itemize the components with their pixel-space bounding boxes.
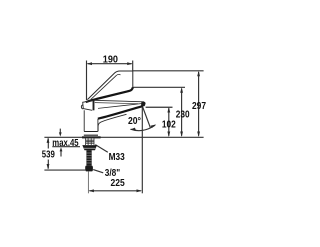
threaded shank	[86, 138, 94, 145]
wire ext right 225	[141, 137, 143, 193]
svg-text:max.45: max.45	[52, 138, 79, 149]
wire counter line	[44, 136, 203, 138]
svg-text:20°: 20°	[128, 116, 141, 127]
arrow 230 bottom	[180, 132, 183, 138]
base bottom dark flange	[82, 136, 101, 138]
wire 20deg arc	[131, 125, 156, 131]
wire dim line 539 lower	[47, 160, 49, 169]
spout top edge	[95, 100, 145, 102]
supply tube ridges	[86, 153, 91, 163]
cap pivot bump	[81, 105, 83, 109]
arrow 297 top	[197, 71, 200, 77]
wire ext left 190	[86, 61, 88, 101]
arrow 190 left	[87, 62, 93, 65]
arrow max45 up	[60, 147, 63, 151]
wire tail up-arrow max45	[60, 150, 62, 157]
mounting nut highlight	[84, 147, 96, 149]
wire 20deg vertical leg	[141, 106, 143, 137]
svg-text:M33: M33	[109, 152, 125, 163]
wire ext top 230	[133, 86, 185, 88]
wire dim line 102	[168, 108, 170, 136]
cap joint dark band	[93, 101, 95, 111]
lever handle top band outer	[87, 71, 132, 100]
svg-text:230: 230	[176, 109, 190, 120]
wire dim line 190	[88, 63, 132, 65]
arrow 297 bottom	[197, 132, 200, 138]
wire dim line 225	[90, 190, 141, 192]
wire dim line 297	[198, 72, 200, 136]
arrow 190 right	[127, 62, 133, 65]
spout top highlight	[95, 103, 138, 104]
wire ext lower max45	[52, 146, 80, 148]
wire leader M33	[95, 145, 108, 153]
spout crease	[98, 103, 143, 108]
svg-text:539: 539	[42, 150, 55, 161]
body base band	[84, 132, 98, 136]
body column	[84, 110, 98, 131]
mounting nut	[82, 145, 97, 150]
arrow 539 top	[47, 137, 50, 143]
spout underside thick	[98, 106, 142, 119]
arrow 20deg arc right	[150, 124, 156, 128]
wire leader 3/8	[93, 170, 103, 173]
lever handle top band inner	[91, 74, 121, 99]
wire 20deg slanted leg	[142, 106, 150, 128]
wire dim line 539 upper	[47, 138, 49, 148]
wire ext right 190	[132, 61, 134, 72]
arrow 225 right	[137, 189, 143, 192]
lever underside thick	[86, 87, 133, 102]
svg-text:190: 190	[103, 54, 118, 65]
spout rear lower edge	[98, 114, 126, 131]
arrow 102 top	[167, 107, 170, 113]
wire dim line 230	[181, 89, 183, 136]
arrow 230 top	[180, 87, 183, 93]
wire ext bottom 539	[44, 169, 85, 171]
arrow max45 down	[59, 132, 62, 136]
spout tip cap	[141, 102, 146, 107]
wire ext top 102	[146, 106, 173, 108]
supply tube	[86, 150, 91, 166]
arrow 20deg arc left	[130, 128, 136, 131]
svg-text:225: 225	[111, 178, 125, 189]
arrow 102 bottom	[167, 132, 170, 138]
wire ext top 297	[133, 70, 204, 72]
wire tail down-arrow max45	[59, 129, 61, 135]
hose end nut 3/8	[85, 166, 93, 172]
cartridge cap	[83, 100, 93, 110]
svg-text:297: 297	[192, 101, 206, 112]
svg-text:102: 102	[162, 120, 176, 131]
lever tip face	[132, 71, 134, 87]
arrow 539 bottom	[47, 164, 50, 170]
arrow 225 left	[88, 189, 94, 192]
